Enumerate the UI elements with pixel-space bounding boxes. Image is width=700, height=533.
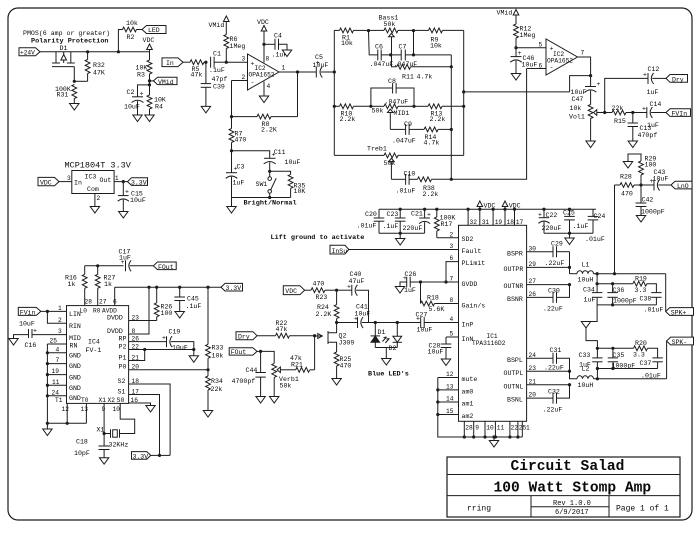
svg-text:1uF: 1uF (404, 287, 416, 294)
wire FOut row (85, 265, 124, 267)
node D2 junction (396, 321, 399, 324)
capacitor C22 220uF (538, 208, 561, 234)
capacitor C18 10pF (74, 439, 110, 458)
capacitor C29 .22uF (545, 240, 570, 267)
resistor R24 2.2K (316, 290, 340, 322)
svg-text:10uF: 10uF (19, 321, 35, 328)
pin 8 VDC (257, 19, 270, 63)
svg-text:X1: X1 (97, 427, 105, 434)
svg-text:OUTPL: OUTPL (504, 370, 524, 377)
node rail R2 junction (117, 50, 120, 53)
svg-text:C38: C38 (640, 296, 652, 303)
svg-text:P2: P2 (119, 343, 127, 350)
resistor R13 2.2k (414, 104, 464, 123)
wire In to R5 (183, 61, 190, 63)
node C3/C11 junction (230, 149, 233, 152)
pin 22 bottom stub (508, 421, 518, 438)
svg-text:7: 7 (56, 357, 60, 364)
capacitor C39 47pf (201, 62, 228, 106)
svg-text:RIN: RIN (69, 323, 81, 330)
capacitor C41 10uF (337, 304, 421, 329)
svg-text:20: 20 (529, 392, 537, 399)
svg-text:P0: P0 (119, 364, 127, 371)
svg-text:C45: C45 (187, 296, 199, 303)
svg-text:FVin: FVin (20, 309, 36, 316)
svg-text:12: 12 (62, 406, 70, 413)
ground below C15 (119, 212, 128, 219)
port tag 3.3V (rail) (221, 283, 243, 292)
svg-text:IC3: IC3 (85, 174, 97, 181)
wire tone stack right bus (463, 30, 465, 155)
svg-text:.01uF: .01uF (644, 307, 664, 314)
capacitor C34 1uF (583, 287, 602, 305)
svg-text:InSu: InSu (332, 248, 348, 255)
node C4 branch (262, 43, 265, 46)
svg-text:InN: InN (462, 336, 474, 343)
pin 18 S2 (118, 378, 171, 456)
svg-text:.01uF: .01uF (396, 188, 416, 195)
ground below R31 (70, 104, 79, 111)
svg-text:R34: R34 (211, 378, 223, 385)
svg-text:2.2k: 2.2k (430, 116, 446, 123)
capacitor C36 1000pF (607, 284, 636, 305)
capacitor C21 220uF (403, 208, 432, 234)
svg-text:26: 26 (132, 335, 140, 342)
svg-text:18: 18 (132, 378, 140, 385)
pin 2 SD2 (437, 231, 474, 243)
svg-text:C34: C34 (583, 287, 595, 294)
svg-text:+: + (125, 189, 129, 196)
svg-text:27: 27 (529, 278, 537, 285)
ground below C45 (175, 312, 184, 319)
node output junction (589, 74, 592, 77)
resistor R7 470 (229, 117, 246, 151)
svg-text:R20: R20 (635, 340, 647, 347)
wire C29 down to OUTPR (569, 252, 571, 274)
node bass wiper junction (389, 53, 392, 56)
svg-text:C32: C32 (548, 388, 560, 395)
resistor R4 10K (147, 85, 166, 115)
svg-text:X2: X2 (108, 397, 116, 404)
svg-text:22: 22 (132, 343, 140, 350)
svg-text:DVDD: DVDD (107, 314, 123, 321)
title block (447, 457, 680, 517)
svg-text:T1: T1 (55, 397, 63, 404)
port tag FOut (to verb pot) (229, 348, 257, 357)
svg-text:FOut: FOut (158, 264, 174, 271)
svg-text:220uF: 220uF (403, 225, 423, 232)
power VDC arrow at R3 top (143, 37, 155, 52)
svg-text:D1: D1 (60, 45, 68, 52)
svg-text:10uH: 10uH (578, 382, 594, 389)
potentiometer Bass1 50k (367, 15, 415, 55)
svg-text:J309: J309 (339, 339, 355, 346)
svg-text:Dry: Dry (672, 77, 684, 84)
svg-text:C33: C33 (579, 352, 591, 359)
svg-text:D2: D2 (389, 345, 397, 352)
capacitor C10 .01uF (391, 171, 415, 195)
pin 8 Gain/s (450, 297, 486, 309)
svg-text:Rev 1.0.0: Rev 1.0.0 (553, 500, 591, 508)
svg-text:10k: 10k (341, 40, 353, 47)
svg-text:10uH: 10uH (578, 277, 594, 284)
svg-text:FV-1: FV-1 (86, 347, 102, 354)
chip IC1 TPA3116D2 body (459, 225, 527, 421)
svg-text:13: 13 (81, 406, 89, 413)
svg-text:+: + (427, 212, 431, 219)
pin 22 P2 (119, 343, 194, 350)
svg-text:R23: R23 (316, 294, 328, 301)
svg-text:3: 3 (67, 175, 71, 182)
capacitor C17 1uF (119, 249, 154, 272)
svg-text:23: 23 (529, 365, 537, 372)
wire lower filter top rail (597, 347, 633, 349)
ground below C46 (511, 74, 520, 81)
capacitor C8 .047uF bracket (371, 78, 414, 106)
port tag SPK- (667, 337, 694, 346)
resistor R28 470 (615, 174, 642, 198)
svg-text:.22uF: .22uF (543, 406, 563, 413)
svg-text:.047uF: .047uF (392, 138, 416, 145)
pin 23 OUTPL (504, 365, 572, 377)
node D1 junction (374, 321, 377, 324)
svg-text:10K: 10K (294, 188, 306, 195)
svg-text:470: 470 (621, 191, 633, 198)
svg-text:1uF: 1uF (233, 180, 245, 187)
svg-text:In: In (74, 180, 82, 187)
svg-text:.22uF: .22uF (545, 260, 565, 267)
svg-text:FVIn: FVIn (672, 111, 688, 118)
node R7 junction (230, 115, 233, 118)
wire wiper up to Dry row (605, 78, 648, 112)
pin 9 bottom stub (472, 421, 479, 438)
svg-text:28: 28 (465, 425, 473, 432)
svg-text:Polarity Protection: Polarity Protection (31, 38, 109, 46)
svg-text:+: + (162, 335, 166, 342)
wire to SPK+ (665, 274, 667, 312)
svg-text:C31: C31 (550, 347, 562, 354)
svg-text:SD2: SD2 (462, 236, 474, 243)
ground below C28 (441, 359, 450, 366)
svg-text:10uF: 10uF (313, 62, 329, 69)
svg-text:C19: C19 (169, 329, 181, 336)
svg-text:rring: rring (467, 505, 491, 514)
svg-text:32: 32 (470, 219, 478, 226)
svg-text:6: 6 (450, 255, 454, 262)
diode D1 blue LED (371, 323, 386, 348)
svg-text:15: 15 (446, 408, 454, 415)
svg-text:C36: C36 (613, 287, 625, 294)
ground between filters (581, 305, 597, 348)
svg-text:470: 470 (235, 137, 247, 144)
svg-text:10: 10 (486, 425, 494, 432)
resistor R10 2.2k (334, 104, 371, 123)
svg-text:FOut: FOut (231, 349, 247, 356)
svg-text:OUTNL: OUTNL (504, 383, 524, 390)
wire C22 group bottom rail (544, 232, 593, 234)
svg-text:C4: C4 (274, 33, 282, 40)
svg-text:21: 21 (529, 378, 537, 385)
svg-text:C47: C47 (572, 96, 584, 103)
wire pin6 (527, 63, 546, 70)
pin 23 DVDD (107, 314, 157, 321)
pin 1 LIN (41, 305, 81, 318)
svg-text:-: - (550, 64, 554, 71)
svg-text:10uF: 10uF (124, 104, 140, 111)
capacitor C40 47uF (337, 271, 369, 323)
ground below C2 (133, 115, 142, 122)
svg-text:PMOS(6 amp or greater): PMOS(6 amp or greater) (23, 30, 110, 37)
pin 31 stub (480, 209, 490, 226)
wire feedback loop (570, 76, 591, 92)
svg-text:Bright/Normal: Bright/Normal (244, 200, 297, 208)
svg-text:X1: X1 (99, 397, 107, 404)
svg-text:am0: am0 (462, 388, 474, 395)
capacitor C11 10uF (264, 149, 301, 171)
svg-text:4: 4 (56, 346, 60, 353)
node R12/C46/pin5 (514, 46, 517, 49)
svg-text:3.3: 3.3 (633, 352, 645, 359)
svg-text:VDC: VDC (40, 180, 52, 187)
svg-text:BSNR: BSNR (507, 296, 523, 303)
capacitor C28 10uF (428, 337, 452, 359)
svg-text:.01uF: .01uF (357, 223, 377, 230)
svg-text:470pf: 470pf (638, 132, 658, 139)
svg-text:C42: C42 (642, 197, 654, 204)
svg-text:VDC: VDC (143, 37, 155, 44)
inductor L2 10uH (570, 366, 667, 389)
node SW1 bottom junction (268, 196, 271, 199)
svg-text:47uF: 47uF (349, 278, 365, 285)
node C22 group ground junction (568, 232, 571, 235)
svg-text:16: 16 (131, 397, 139, 404)
node feedback to pin6 (450, 178, 453, 181)
resistor R25 470 (334, 352, 351, 379)
ground below C39 (201, 106, 210, 113)
ground below Vol1 (586, 141, 595, 148)
svg-text:220uF: 220uF (542, 225, 562, 232)
capacitor C33 1uF (579, 348, 603, 368)
svg-text:SPK+: SPK+ (671, 310, 687, 317)
capacitor C30 .22uF (543, 285, 570, 313)
pin 16 S0 (117, 397, 151, 406)
pin 20 BSNL (507, 392, 553, 404)
svg-text:.047uF: .047uF (370, 61, 394, 68)
svg-text:1Meg: 1Meg (520, 32, 536, 39)
node cap group ground junction (399, 232, 402, 235)
pin 19 GND (46, 368, 81, 381)
chip IC3 regulator body (72, 171, 114, 194)
svg-text:470: 470 (340, 362, 352, 369)
svg-text:Treb1: Treb1 (367, 146, 387, 153)
node R10 row junction (333, 105, 336, 108)
svg-text:Page 1 of 1: Page 1 of 1 (616, 505, 669, 514)
wire bottom rail bright/normal (232, 197, 291, 199)
svg-text:C18: C18 (76, 439, 88, 446)
resistor R3 10K (136, 52, 152, 85)
svg-text:5.6K: 5.6K (429, 306, 445, 313)
wire to pin5 (516, 42, 546, 49)
svg-text:10K: 10K (154, 97, 166, 104)
resistor R16 1k (65, 266, 87, 306)
pin 8 DVDD (107, 286, 151, 335)
resistor R21 47k (290, 355, 315, 372)
svg-text:20: 20 (132, 364, 140, 371)
svg-text:GND: GND (69, 352, 81, 359)
svg-text:C39: C39 (213, 84, 225, 91)
pin 4 InP (424, 316, 473, 328)
svg-text:C21: C21 (411, 211, 423, 218)
svg-text:GND: GND (69, 375, 81, 382)
node R28 junction (613, 272, 616, 275)
svg-text:4: 4 (267, 83, 271, 90)
wire LED bottom rail (375, 347, 397, 349)
svg-text:C16: C16 (25, 342, 37, 349)
svg-text:C23: C23 (387, 211, 399, 218)
capacitor C47 10uF (571, 76, 601, 105)
resistor R35 10K (270, 171, 306, 197)
power VMid arrow above R12 (497, 10, 519, 25)
node R13 right junction (462, 105, 465, 108)
pin 27 OUTNR (504, 278, 572, 290)
svg-text:Com: Com (87, 186, 99, 193)
ground below C19 node (189, 350, 198, 363)
pin 21 P1 (119, 348, 147, 361)
svg-text:10uF: 10uF (653, 175, 669, 182)
port tag Dry (666, 75, 688, 84)
pin 14 am1 (436, 396, 473, 408)
svg-text:Vol1: Vol1 (569, 114, 585, 121)
node tone out junction (462, 90, 465, 93)
capacitor C25 .1uF (563, 208, 588, 234)
port tag FOut (dest) (153, 262, 176, 271)
capacitor C45 .1uF (174, 286, 201, 312)
svg-text:10k: 10k (570, 105, 582, 112)
svg-text:MID1: MID1 (394, 110, 410, 117)
svg-text:23: 23 (132, 314, 140, 321)
svg-text:.1uF: .1uF (209, 67, 225, 74)
svg-text:am2: am2 (462, 413, 474, 420)
ground below C16 (9, 339, 18, 346)
svg-text:C41: C41 (356, 304, 368, 311)
svg-text:4700pf: 4700pf (232, 378, 256, 385)
svg-text:P1: P1 (119, 354, 127, 361)
wire output down to R8 (297, 72, 299, 117)
svg-text:1k: 1k (104, 281, 112, 288)
wire output pin1 (279, 65, 316, 73)
switch SW1 (256, 171, 277, 197)
resistor R14 4.7k (409, 127, 451, 147)
resistor R12 1Meg (514, 24, 536, 48)
svg-text:3: 3 (450, 243, 454, 250)
pin 19 stub (492, 208, 503, 226)
svg-text:C29: C29 (551, 240, 563, 247)
pin 2 Com ground (95, 194, 101, 207)
svg-text:+: + (643, 72, 647, 79)
resistor R38 2.2k (409, 177, 451, 198)
capacitor C3 1uF (226, 151, 245, 198)
svg-text:1uF: 1uF (119, 254, 131, 261)
node C13/C14 junction (631, 111, 634, 114)
capacitor C23 .1uF (383, 208, 406, 234)
svg-text:.047uF: .047uF (385, 99, 409, 106)
wire R28 down to OUTPR (614, 185, 616, 274)
svg-text:C22: C22 (546, 212, 558, 219)
diode D2 blue LED (383, 323, 403, 352)
svg-text:R3: R3 (137, 72, 145, 79)
svg-text:C9: C9 (404, 121, 412, 128)
svg-text:+: + (518, 50, 522, 57)
svg-text:VDC: VDC (285, 288, 297, 295)
chip IC4 FV-1 body (67, 299, 129, 404)
svg-text:OPA1652: OPA1652 (547, 58, 573, 65)
capacitor C16 10uF (14, 321, 67, 350)
wire output pin7 (578, 50, 591, 76)
resistor R2 10k (118, 20, 142, 52)
svg-text:+: + (538, 212, 542, 219)
pin 11 GND (46, 379, 81, 392)
svg-text:R4: R4 (155, 104, 163, 111)
svg-text:3.3: 3.3 (635, 287, 647, 294)
svg-text:OPA1652: OPA1652 (249, 72, 275, 79)
wire mix node to gate (314, 336, 316, 370)
svg-text:R6: R6 (230, 36, 238, 43)
svg-text:1000pF: 1000pF (613, 297, 637, 304)
resistor R9 10k (414, 28, 464, 50)
svg-text:2: 2 (450, 231, 454, 238)
pin 4 ground (264, 82, 271, 97)
ground below S0 (146, 406, 155, 413)
resistor R27 1k (95, 266, 115, 306)
node R14 right junction (450, 128, 453, 131)
pin 1 bottom stub (522, 421, 530, 437)
capacitor C27 10uF (416, 312, 433, 334)
svg-text:5: 5 (450, 331, 454, 338)
capacitor C2 10uF (124, 89, 144, 115)
resistor R18 5.6K (421, 282, 459, 313)
svg-text:27: 27 (99, 299, 107, 306)
node FOut junction (257, 350, 262, 353)
port tag FVIn (666, 109, 691, 118)
svg-text:C40: C40 (350, 271, 362, 278)
wire S1/S2 join (160, 454, 171, 456)
svg-text:Out: Out (100, 177, 112, 184)
svg-text:5: 5 (539, 42, 543, 49)
svg-text:OUTNR: OUTNR (504, 283, 524, 290)
wire bass wiper to R11 (392, 55, 397, 67)
svg-text:R17: R17 (441, 221, 453, 228)
svg-text:22k: 22k (612, 105, 624, 112)
wire tone stack left bus (333, 30, 335, 155)
svg-text:S2: S2 (118, 378, 126, 385)
pin 25 bottom stub (516, 421, 526, 438)
node R24/C40 junction (335, 289, 338, 292)
svg-text:Gain/s: Gain/s (462, 302, 486, 309)
capacitor C12 1uF (643, 66, 666, 96)
resistor R15 22k (605, 105, 633, 125)
svg-text:DVDD: DVDD (107, 328, 123, 335)
potentiometer Verb1 50k (261, 351, 299, 396)
svg-text:11: 11 (497, 425, 505, 432)
svg-text:29: 29 (529, 261, 537, 268)
svg-text:C1: C1 (213, 51, 221, 58)
svg-text:10k: 10k (126, 20, 138, 27)
node output junction (296, 70, 299, 73)
ground below C13 (628, 141, 637, 148)
svg-text:Lift ground to activate: Lift ground to activate (271, 234, 365, 242)
svg-text:8: 8 (132, 328, 136, 335)
svg-text:C5: C5 (315, 54, 323, 61)
